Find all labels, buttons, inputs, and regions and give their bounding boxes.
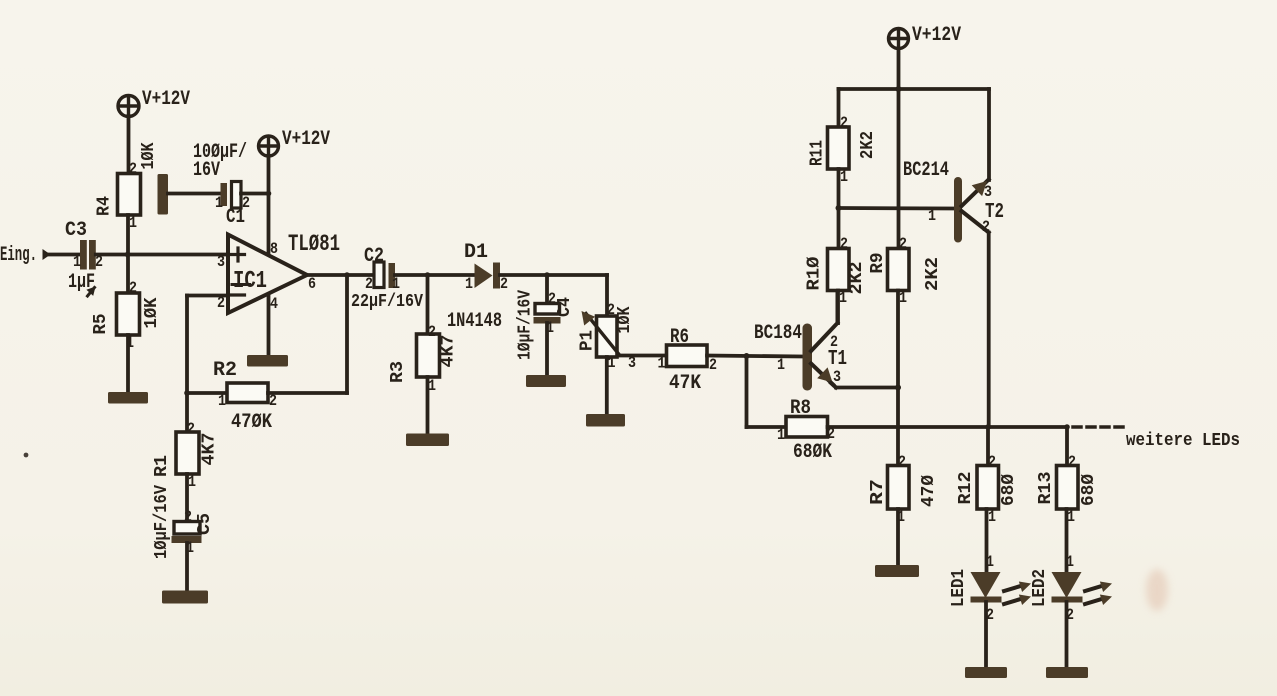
svg-text:Eing.: Eing. [0, 244, 37, 267]
wire junction down to R10 [837, 208, 841, 249]
wire R7 to ground [896, 509, 900, 566]
svg-text:BC214: BC214 [903, 159, 949, 182]
svg-text:68Ø: 68Ø [1079, 474, 1099, 506]
wire C3 to op-amp pin 3 [96, 253, 228, 257]
transistor T2 collector line [962, 211, 989, 233]
svg-text:V+12V: V+12V [142, 88, 190, 111]
node C4 junction [544, 272, 550, 278]
capacitor C1 [221, 183, 228, 206]
resistor R2 [227, 383, 268, 403]
svg-text:1: 1 [988, 508, 996, 526]
wire op-amp pin 6 to C2 [307, 273, 374, 277]
svg-text:1: 1 [928, 207, 936, 225]
svg-text:R11: R11 [808, 140, 828, 166]
wire junction down to R3 [426, 275, 430, 334]
svg-text:2: 2 [840, 235, 848, 253]
svg-text:2: 2 [988, 453, 996, 471]
wire C2 to D1 [395, 273, 475, 277]
power symbol V+12V (left) [118, 96, 139, 117]
svg-text:2: 2 [899, 235, 907, 253]
diode D1 [475, 264, 493, 289]
wire V+12V to R4 [127, 116, 131, 174]
node input junction [125, 252, 131, 258]
power symbol V+12V (right) [889, 29, 909, 49]
svg-text:1ØK: 1ØK [142, 297, 162, 328]
resistor R10 [828, 249, 850, 291]
capacitor C4 [535, 304, 560, 315]
svg-text:47Ø: 47Ø [919, 475, 939, 507]
wire op-amp pin 4 to ground [267, 296, 271, 356]
svg-text:R12: R12 [956, 472, 976, 505]
svg-text:1: 1 [188, 473, 196, 491]
wire junction down to C4 [545, 275, 549, 304]
svg-text:R5: R5 [91, 314, 111, 335]
wire D1 to corner [500, 273, 607, 277]
svg-text:1N4148: 1N4148 [447, 310, 502, 333]
wire rail down to R11 [837, 89, 841, 128]
svg-text:2K2: 2K2 [847, 262, 867, 295]
capacitor C5 [174, 522, 200, 535]
svg-text:weitere LEDs: weitere LEDs [1126, 431, 1240, 451]
ground bar left of C1 (vertical) [158, 174, 169, 215]
svg-text:2: 2 [709, 356, 717, 374]
svg-text:R2: R2 [213, 359, 237, 382]
svg-text:1: 1 [986, 553, 994, 571]
wire junction down to R1 [185, 393, 189, 432]
transistor T2 [954, 177, 962, 243]
input terminal arrow [43, 249, 51, 260]
svg-text:4K7: 4K7 [439, 335, 459, 368]
svg-text:LED1: LED1 [949, 569, 969, 607]
svg-text:2: 2 [607, 301, 615, 319]
svg-text:2K2: 2K2 [858, 131, 878, 159]
wire input to C3 [49, 253, 80, 257]
resistor R12 [977, 466, 999, 510]
wire T2 collector down [987, 233, 991, 428]
wire V+12V stub [897, 49, 901, 89]
svg-text:68ØK: 68ØK [793, 441, 832, 464]
node op-amp output junction [344, 272, 350, 278]
resistor R8 [786, 417, 828, 438]
wire ground to C1 [168, 192, 221, 196]
svg-text:1: 1 [1066, 553, 1074, 571]
op-amp minus input mark [232, 293, 245, 296]
wire R9 to emitter junction [896, 291, 900, 388]
svg-text:47ØK: 47ØK [231, 411, 272, 434]
svg-text:68Ø: 68Ø [999, 474, 1019, 506]
svg-text:R9: R9 [868, 253, 888, 274]
ground below P1 [586, 414, 625, 427]
resistor R9 [888, 249, 910, 291]
svg-text:2: 2 [365, 275, 373, 293]
wire R4 to R5 [126, 215, 130, 293]
wire P1 to ground [605, 357, 609, 415]
wire rail down to T2 emitter [987, 89, 991, 180]
wire R13 to LED2 [1065, 509, 1069, 573]
wire weitere LEDs dashed [1073, 425, 1124, 429]
svg-text:1ØK: 1ØK [139, 142, 159, 169]
wire R1 to C5 [185, 474, 189, 522]
svg-text:R3: R3 [388, 361, 408, 383]
svg-text:IC1: IC1 [233, 268, 267, 295]
wire V+12V down to op-amp pin 8 [267, 156, 271, 255]
wire emitter junction to R7 [896, 388, 900, 467]
wire LED2 to ground [1065, 602, 1069, 668]
polarity mark near C3 [88, 288, 95, 297]
wire R6 to T1 base [707, 356, 802, 357]
wire R3 to ground [426, 377, 430, 435]
wire C4 to ground [545, 323, 549, 377]
svg-text:2: 2 [184, 508, 192, 526]
wire R11 to base junction [837, 169, 841, 208]
ground below C4 [526, 375, 566, 387]
svg-text:C5: C5 [195, 513, 215, 535]
op-amp plus input mark [232, 253, 245, 256]
ground below R7 [875, 565, 919, 577]
wire V+12V down to R9 [897, 89, 901, 249]
svg-text:2: 2 [187, 420, 195, 438]
svg-text:R6: R6 [670, 326, 689, 349]
ground below R3 [406, 434, 449, 447]
svg-text:4K7: 4K7 [200, 433, 220, 466]
wire C5 to ground [185, 543, 189, 592]
wire junction to R2 pin 1 [187, 391, 227, 395]
svg-text:1: 1 [658, 355, 666, 373]
svg-text:1: 1 [218, 392, 226, 410]
power symbol V+12V (middle) [259, 136, 279, 156]
ground below R5 [108, 392, 148, 404]
svg-text:R8: R8 [790, 397, 811, 420]
wire R10 to T1 collector [836, 291, 840, 324]
resistor R13 [1057, 466, 1079, 510]
LED1 light arrows [1004, 587, 1019, 592]
wire junction down to R8 [745, 356, 749, 427]
svg-text:2: 2 [500, 275, 508, 293]
svg-text:TLØ81: TLØ81 [288, 231, 340, 257]
transistor T1 [803, 324, 813, 391]
wire LED rail [828, 425, 1068, 429]
svg-text:1ØμF/16V: 1ØμF/16V [152, 485, 172, 559]
wire P1 wiper to R6 [620, 354, 668, 358]
svg-text:1ØK: 1ØK [615, 306, 635, 333]
svg-text:1ØμF/16V: 1ØμF/16V [516, 290, 536, 360]
wire LED1 to ground [984, 602, 988, 668]
svg-text:1: 1 [73, 253, 81, 271]
op-amp IC1 label underline [232, 283, 250, 286]
svg-text:2: 2 [428, 323, 436, 341]
transistor T1 collector line [811, 323, 838, 351]
svg-text:3: 3 [833, 368, 841, 386]
node feedback junction [184, 390, 190, 396]
svg-text:16V: 16V [193, 159, 220, 182]
svg-text:R1Ø: R1Ø [805, 256, 825, 290]
LED2 [1052, 572, 1082, 598]
node top rail junction [896, 86, 902, 92]
svg-text:1: 1 [840, 168, 848, 186]
svg-text:2: 2 [1068, 453, 1076, 471]
svg-text:P1: P1 [578, 330, 598, 351]
resistor R3 [417, 334, 440, 377]
wire R2 pin 2 to output [268, 391, 347, 395]
svg-text:2K2: 2K2 [923, 257, 943, 291]
node R12 junction [985, 424, 991, 430]
ground below C5 [162, 591, 208, 604]
svg-text:1: 1 [129, 214, 137, 232]
capacitor C2 [374, 262, 384, 288]
svg-text:4: 4 [270, 295, 278, 313]
svg-text:R13: R13 [1036, 472, 1056, 505]
resistor R6 [667, 345, 708, 367]
node R13 junction [1064, 424, 1070, 430]
node base rail junction [836, 205, 842, 211]
ground below op-amp [247, 355, 288, 367]
svg-text:BC184: BC184 [754, 322, 802, 345]
node emitter junction [895, 385, 901, 391]
wire op-amp pin 2 stub [187, 294, 228, 298]
wire junction down to R13 [1065, 427, 1069, 466]
ground below LED2 [1046, 667, 1088, 678]
resistor R7 [888, 466, 910, 510]
svg-text:C2: C2 [364, 245, 384, 268]
potentiometer P1 [597, 316, 618, 357]
node C1 junction [266, 191, 272, 197]
resistor R4 [118, 174, 141, 216]
wire junction down to R12 [986, 427, 990, 466]
node R3 junction [425, 272, 431, 278]
potentiometer P1 wiper arrow [586, 314, 620, 356]
svg-text:1: 1 [465, 275, 473, 293]
ground below LED1 [965, 667, 1007, 678]
svg-text:D1: D1 [464, 241, 488, 264]
svg-text:R1: R1 [152, 455, 172, 477]
svg-text:47K: 47K [669, 372, 701, 395]
svg-text:V+12V: V+12V [282, 128, 330, 151]
svg-text:1: 1 [899, 289, 907, 307]
svg-text:1: 1 [839, 289, 847, 307]
wire C1 to V+12V rail [241, 192, 269, 196]
svg-text:C3: C3 [65, 219, 87, 242]
svg-text:1: 1 [777, 426, 785, 444]
svg-text:22μF/16V: 22μF/16V [351, 292, 423, 312]
svg-text:LED2: LED2 [1030, 569, 1050, 607]
wire top rail [839, 87, 990, 91]
svg-text:3: 3 [217, 253, 225, 271]
svg-text:2: 2 [242, 194, 250, 212]
transistor T2 emitter line [962, 180, 989, 207]
resistor R1 [176, 432, 199, 474]
svg-text:R4: R4 [95, 196, 115, 216]
svg-text:1: 1 [777, 356, 785, 374]
svg-text:2: 2 [129, 160, 137, 178]
LED2 light arrows [1085, 587, 1100, 592]
svg-text:V+12V: V+12V [912, 24, 961, 47]
resistor R11 [828, 127, 850, 169]
LED1 [971, 572, 1001, 598]
svg-text:2: 2 [548, 290, 556, 308]
svg-text:6: 6 [308, 275, 316, 293]
svg-text:R7: R7 [868, 479, 888, 505]
svg-text:3: 3 [984, 183, 992, 201]
node T1 base junction [744, 353, 750, 359]
svg-text:2: 2 [840, 114, 848, 132]
transistor T1 emitter line [811, 364, 833, 385]
wire corner down to P1 [605, 275, 609, 317]
wire R12 to LED1 [985, 509, 989, 573]
svg-text:8: 8 [270, 240, 278, 258]
svg-text:1: 1 [392, 275, 400, 293]
svg-text:1: 1 [215, 194, 223, 212]
wire base junction to T2 [839, 206, 955, 210]
capacitor C3 [80, 240, 87, 270]
svg-text:C4: C4 [555, 297, 575, 317]
op-amp IC1 [228, 235, 307, 314]
svg-text:2: 2 [129, 279, 137, 297]
wire T1 emitter run [836, 386, 898, 390]
svg-text:2: 2 [830, 333, 838, 351]
resistor R5 [117, 293, 140, 335]
svg-text:2: 2 [898, 453, 906, 471]
wire R5 to ground [126, 335, 130, 394]
